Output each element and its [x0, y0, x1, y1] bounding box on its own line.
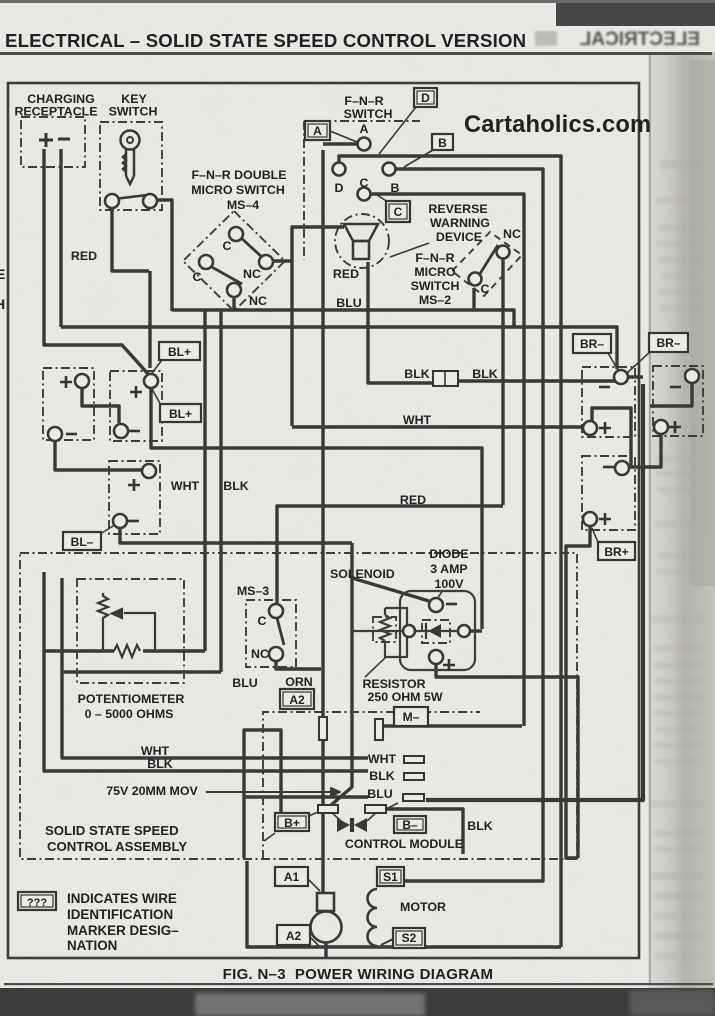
svg-text:MICRO SWITCH: MICRO SWITCH: [191, 183, 285, 197]
svg-text:BLK: BLK: [369, 769, 395, 783]
svg-text:???: ???: [27, 897, 47, 909]
svg-text:RECEPTACLE: RECEPTACLE: [14, 105, 97, 119]
svg-text:B: B: [438, 136, 447, 150]
svg-text:75V 20MM MOV: 75V 20MM MOV: [106, 784, 198, 798]
svg-text:B: B: [391, 181, 400, 195]
svg-text:C: C: [193, 270, 202, 284]
svg-text:BR–: BR–: [656, 336, 680, 350]
svg-text:WHT: WHT: [403, 413, 432, 427]
svg-text:BL+: BL+: [169, 407, 192, 421]
svg-text:A1: A1: [284, 870, 300, 884]
svg-text:M–: M–: [403, 710, 420, 724]
svg-text:C: C: [223, 239, 232, 253]
svg-text:BLK: BLK: [147, 757, 173, 771]
svg-text:WHT: WHT: [171, 479, 200, 493]
svg-text:ELECTRICAL – SOLID STATE SPEED: ELECTRICAL – SOLID STATE SPEED CONTROL V…: [5, 30, 526, 51]
svg-text:SOLENOID: SOLENOID: [330, 567, 395, 581]
svg-text:A: A: [313, 124, 322, 138]
svg-text:FIG. N–3 POWER WIRING DIAGRAM: FIG. N–3 POWER WIRING DIAGRAM: [223, 966, 494, 983]
svg-text:MICRO: MICRO: [414, 265, 456, 279]
svg-text:S1: S1: [383, 870, 398, 884]
svg-text:A2: A2: [289, 693, 305, 707]
svg-text:RED: RED: [400, 493, 426, 507]
svg-text:RESISTOR: RESISTOR: [362, 677, 425, 691]
svg-text:SWITCH: SWITCH: [109, 105, 158, 119]
svg-text:A2: A2: [286, 929, 302, 943]
svg-text:NC: NC: [243, 267, 261, 281]
svg-text:B–: B–: [402, 818, 418, 832]
svg-text:NC: NC: [251, 647, 269, 661]
svg-text:SWITCH: SWITCH: [344, 107, 393, 121]
svg-text:0 – 5000 OHMS: 0 – 5000 OHMS: [85, 707, 174, 721]
svg-text:MS–2: MS–2: [419, 293, 451, 307]
svg-text:BLU: BLU: [232, 676, 258, 690]
svg-text:D: D: [421, 91, 430, 105]
svg-text:CONTROL MODULE: CONTROL MODULE: [345, 837, 463, 851]
svg-text:SOLID STATE SPEED: SOLID STATE SPEED: [45, 823, 179, 838]
svg-text:RED: RED: [71, 249, 97, 263]
svg-text:F–N–R: F–N–R: [415, 251, 454, 265]
svg-text:C: C: [360, 176, 369, 190]
svg-text:BLU: BLU: [336, 296, 362, 310]
svg-text:F–N–R: F–N–R: [344, 94, 383, 108]
svg-text:3 AMP: 3 AMP: [430, 562, 467, 576]
svg-text:DIODE: DIODE: [429, 547, 468, 561]
svg-text:250 OHM 5W: 250 OHM 5W: [367, 690, 442, 704]
svg-text:WHT: WHT: [141, 744, 170, 758]
svg-text:BLK: BLK: [404, 367, 430, 381]
svg-text:NC: NC: [249, 294, 267, 308]
svg-text:C: C: [258, 614, 267, 628]
svg-text:POTENTIOMETER: POTENTIOMETER: [78, 692, 185, 706]
svg-text:MARKER DESIG–: MARKER DESIG–: [67, 923, 179, 938]
svg-text:NATION: NATION: [67, 938, 117, 953]
svg-text:CONTROL ASSEMBLY: CONTROL ASSEMBLY: [47, 839, 187, 854]
svg-text:INDICATES WIRE: INDICATES WIRE: [67, 891, 177, 906]
svg-text:BLU: BLU: [367, 787, 393, 801]
svg-text:RED: RED: [333, 267, 359, 281]
svg-text:REVERSE: REVERSE: [428, 202, 487, 216]
svg-text:B+: B+: [284, 816, 300, 830]
svg-text:C: C: [394, 205, 403, 219]
svg-text:H: H: [0, 296, 5, 312]
svg-text:Cartaholics.com: Cartaholics.com: [464, 112, 651, 138]
svg-text:E: E: [0, 266, 5, 282]
svg-text:WARNING: WARNING: [430, 216, 490, 230]
svg-text:BLK: BLK: [472, 367, 498, 381]
svg-text:A: A: [360, 122, 369, 136]
svg-text:NC: NC: [503, 227, 521, 241]
svg-text:S2: S2: [402, 931, 417, 945]
svg-text:DEVICE: DEVICE: [436, 230, 482, 244]
svg-text:BLK: BLK: [467, 819, 493, 833]
svg-text:100V: 100V: [435, 577, 465, 591]
svg-text:BR+: BR+: [604, 545, 628, 559]
svg-text:C: C: [481, 282, 490, 296]
svg-text:IDENTIFICATION: IDENTIFICATION: [67, 907, 173, 922]
svg-text:ORN: ORN: [285, 675, 313, 689]
svg-text:ELECTRICAL: ELECTRICAL: [579, 29, 700, 50]
svg-text:BLK: BLK: [223, 479, 249, 493]
svg-text:D: D: [335, 181, 344, 195]
svg-text:F–N–R DOUBLE: F–N–R DOUBLE: [191, 168, 286, 182]
svg-text:MS–4: MS–4: [227, 198, 259, 212]
svg-text:MS–3: MS–3: [237, 584, 269, 598]
svg-text:SWITCH: SWITCH: [411, 279, 460, 293]
svg-text:BL–: BL–: [71, 535, 94, 549]
svg-text:BL+: BL+: [168, 345, 191, 359]
svg-text:MOTOR: MOTOR: [400, 900, 446, 914]
svg-text:WHT: WHT: [368, 752, 397, 766]
svg-text:BR–: BR–: [580, 337, 604, 351]
